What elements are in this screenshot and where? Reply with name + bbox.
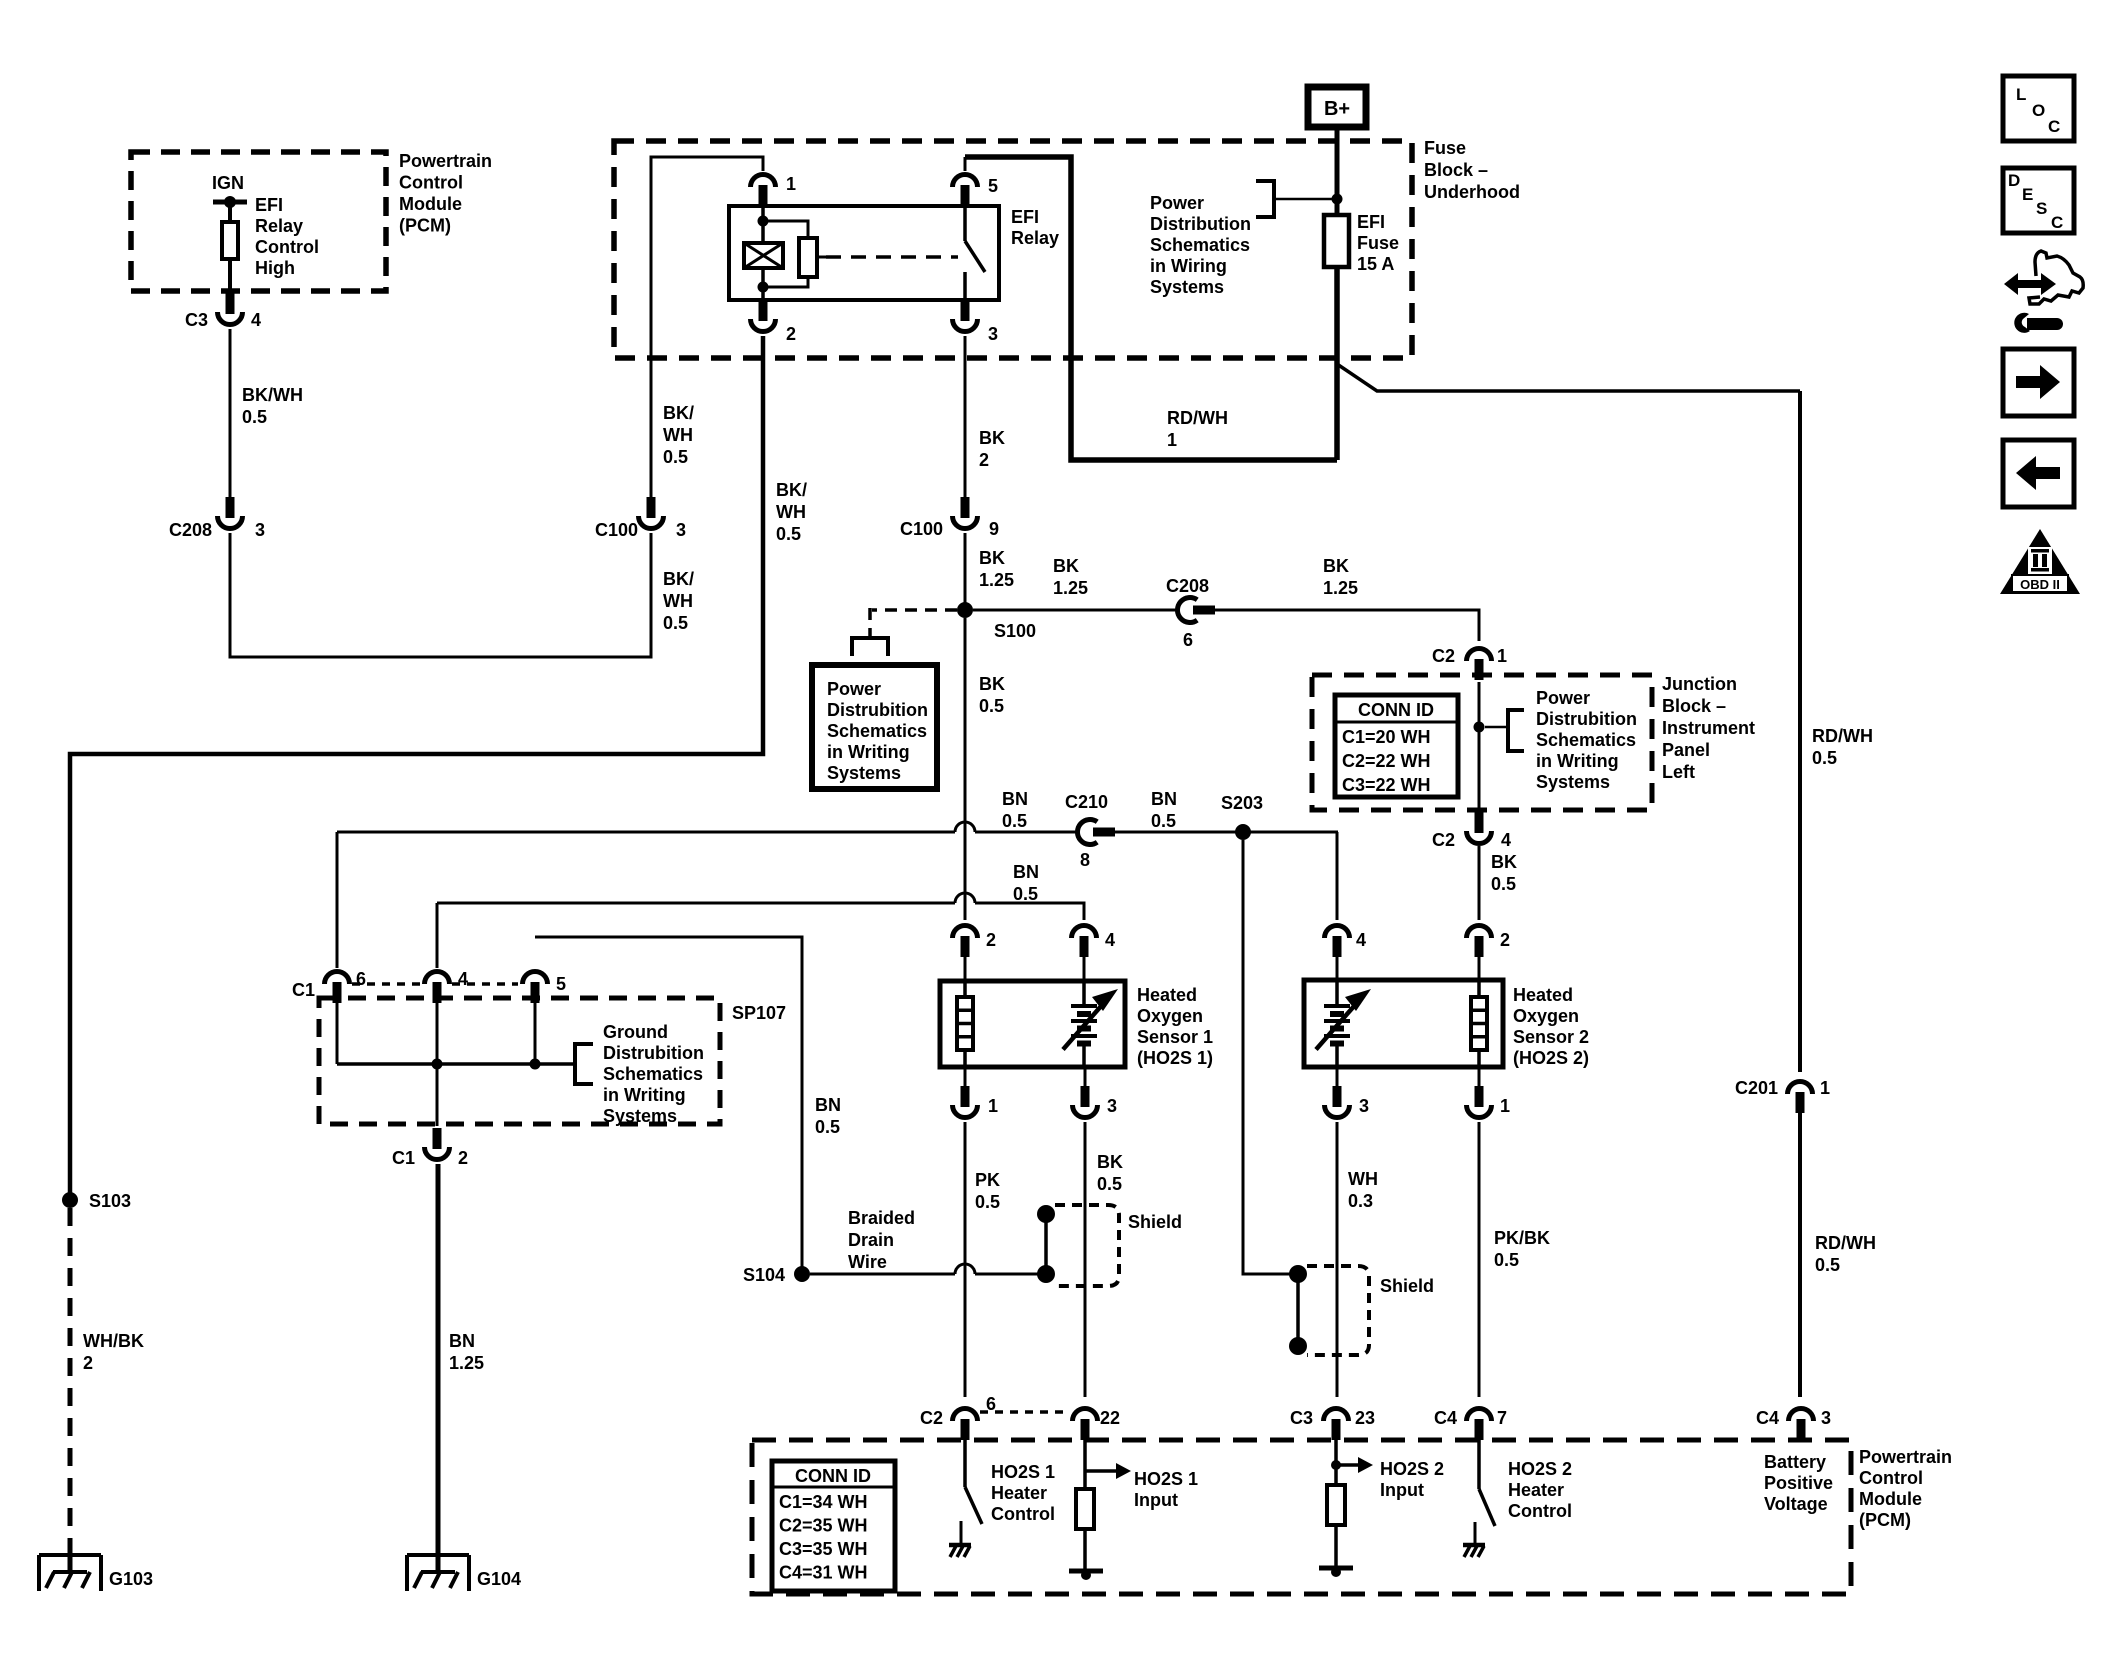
- relay switch lower contact to pin 3: [963, 272, 967, 300]
- svg-text:Control: Control: [1508, 1501, 1572, 1521]
- svg-text:1.25: 1.25: [1323, 578, 1358, 598]
- svg-text:S103: S103: [89, 1191, 131, 1211]
- svg-text:3: 3: [988, 324, 998, 344]
- wire C100-3 up to relay pin 1: [651, 157, 763, 497]
- svg-text:Wire: Wire: [848, 1252, 887, 1272]
- svg-text:RD/WH: RD/WH: [1815, 1233, 1876, 1253]
- svg-text:EFI: EFI: [1357, 212, 1385, 232]
- svg-text:C: C: [2048, 117, 2060, 136]
- svg-text:C2: C2: [920, 1408, 943, 1428]
- HO2S1 heater element: [963, 981, 967, 997]
- wire C1-5 to braided drain corner: [535, 937, 802, 1274]
- relay pin 3 connector: [961, 300, 970, 321]
- svg-text:Oxygen: Oxygen: [1513, 1006, 1579, 1026]
- svg-text:Fuse: Fuse: [1357, 233, 1399, 253]
- Power Distrubition note box (left): [812, 665, 937, 789]
- svg-text:CONN ID: CONN ID: [795, 1466, 871, 1486]
- svg-text:1: 1: [1167, 430, 1177, 450]
- connector C2 pin 4: [1475, 812, 1484, 833]
- svg-text:G103: G103: [109, 1569, 153, 1589]
- junction dot coil top: [758, 216, 769, 227]
- ground bus inside SP107: [336, 1003, 339, 1064]
- svg-text:4: 4: [458, 969, 468, 989]
- HO2S1 pin 4 connector: [1080, 936, 1089, 957]
- svg-text:(PCM): (PCM): [1859, 1510, 1911, 1530]
- svg-text:C3: C3: [1290, 1408, 1313, 1428]
- relay switch blade: [965, 241, 985, 272]
- svg-text:5: 5: [988, 176, 998, 196]
- svg-text:0.5: 0.5: [1013, 884, 1038, 904]
- Heated Oxygen Sensor 2 box: [1336, 957, 1339, 981]
- connector C3 pin 23: [1332, 1419, 1341, 1440]
- svg-text:Module: Module: [399, 194, 462, 214]
- svg-text:WH/BK: WH/BK: [83, 1331, 144, 1351]
- svg-text:HO2S 2: HO2S 2: [1508, 1459, 1572, 1479]
- wire IGN to resistor: [228, 202, 232, 222]
- HO2S2 heater control switch: [1477, 1440, 1481, 1489]
- HO2S1 input termination: [1069, 1569, 1103, 1574]
- svg-text:15 A: 15 A: [1357, 254, 1394, 274]
- CONN ID table (PCM): [772, 1461, 895, 1591]
- connector C1 pin 4: [433, 982, 442, 1003]
- svg-text:in Writing: in Writing: [1536, 751, 1619, 771]
- svg-text:Left: Left: [1662, 762, 1695, 782]
- svg-text:Ground: Ground: [603, 1022, 668, 1042]
- shield 2 dashed outline: [1307, 1266, 1369, 1355]
- svg-text:CONN ID: CONN ID: [1358, 700, 1434, 720]
- svg-text:BK: BK: [979, 674, 1005, 694]
- svg-text:PK/BK: PK/BK: [1494, 1228, 1550, 1248]
- svg-text:Power: Power: [1536, 688, 1590, 708]
- svg-text:5: 5: [556, 974, 566, 994]
- wire C208-3 down and right to C100-3: [230, 533, 651, 657]
- svg-text:Control: Control: [991, 1504, 1055, 1524]
- svg-text:Input: Input: [1380, 1480, 1424, 1500]
- svg-text:2: 2: [786, 324, 796, 344]
- SP107 dashed box: [319, 998, 720, 1124]
- HO2S1 pin 1 connector: [964, 1067, 967, 1086]
- wire C1-6 riser: [336, 832, 339, 968]
- wire pin5 stub from top run: [964, 157, 967, 171]
- svg-text:1: 1: [1500, 1096, 1510, 1116]
- svg-text:1: 1: [1820, 1078, 1830, 1098]
- icon LOC box: [2003, 76, 2074, 141]
- wire WH 0.3 to C3-23 (shielded): [1336, 1122, 1339, 1397]
- svg-text:Block –: Block –: [1662, 696, 1726, 716]
- relay coil (box with X): [744, 243, 783, 268]
- svg-text:Schematics: Schematics: [1150, 235, 1250, 255]
- svg-text:EFI: EFI: [255, 195, 283, 215]
- svg-text:Voltage: Voltage: [1764, 1494, 1828, 1514]
- svg-text:O: O: [2032, 101, 2045, 120]
- wire C1-4 riser: [436, 903, 439, 968]
- svg-text:3: 3: [676, 520, 686, 540]
- relay pin 1 connector: [759, 185, 768, 206]
- junction dot coil bottom: [758, 282, 769, 293]
- svg-text:C: C: [2051, 213, 2063, 232]
- svg-text:BK: BK: [979, 428, 1005, 448]
- ground G103: [39, 1553, 101, 1557]
- svg-text:in Writing: in Writing: [603, 1085, 686, 1105]
- HO2S1 heater control switch: [963, 1440, 967, 1487]
- svg-text:BK: BK: [1491, 852, 1517, 872]
- svg-text:4: 4: [1501, 830, 1511, 850]
- wire relay pin2 down, across, to S103: [70, 336, 763, 1200]
- svg-text:4: 4: [1356, 930, 1366, 950]
- svg-text:4: 4: [251, 310, 261, 330]
- icon vehicle with arrows and wrench: [2004, 273, 2056, 295]
- dashed connector row C1: [352, 982, 422, 986]
- shield 2 drain dots and link: [1289, 1265, 1307, 1283]
- svg-text:23: 23: [1355, 1408, 1375, 1428]
- svg-text:2: 2: [979, 450, 989, 470]
- wire resistor to C3 pin 4: [228, 259, 232, 293]
- wire coil bottom: [761, 268, 765, 300]
- svg-text:L: L: [2016, 85, 2026, 104]
- svg-text:Fuse: Fuse: [1424, 138, 1466, 158]
- svg-text:C2: C2: [1432, 830, 1455, 850]
- wire relay pin3 to C100-9: [964, 336, 967, 497]
- svg-text:C2: C2: [1432, 646, 1455, 666]
- svg-text:C2=35 WH: C2=35 WH: [779, 1516, 868, 1536]
- CONN ID table (junction block): [1335, 695, 1458, 797]
- svg-text:Powertrain: Powertrain: [399, 151, 492, 171]
- svg-text:1: 1: [786, 174, 796, 194]
- wire RD/WH 1 loop: pin5 top run: [965, 157, 1337, 460]
- wire BN row 2 (C1-4 to HO2S1 pin4): [437, 902, 955, 905]
- icon OBD II triangle: [2000, 529, 2080, 594]
- svg-text:C3=35 WH: C3=35 WH: [779, 1539, 868, 1559]
- wire PK 0.5 to C2-6: [964, 1122, 967, 1397]
- wire BN 0.5 horizontal row (to C210/S203): [337, 831, 955, 834]
- svg-text:(PCM): (PCM): [399, 216, 451, 236]
- svg-text:in Wiring: in Wiring: [1150, 256, 1227, 276]
- splice S203: [1235, 824, 1251, 840]
- svg-text:7: 7: [1497, 1408, 1507, 1428]
- svg-text:BK: BK: [1097, 1152, 1123, 1172]
- svg-text:C1: C1: [392, 1148, 415, 1168]
- svg-text:HO2S 1: HO2S 1: [991, 1462, 1055, 1482]
- resistor EFI Relay Control High (in PCM): [222, 222, 238, 259]
- svg-text:RD/WH: RD/WH: [1812, 726, 1873, 746]
- svg-text:0.5: 0.5: [776, 524, 801, 544]
- svg-text:BN: BN: [815, 1095, 841, 1115]
- svg-text:Schematics: Schematics: [827, 721, 927, 741]
- svg-text:IGN: IGN: [212, 173, 244, 193]
- svg-text:C3: C3: [185, 310, 208, 330]
- bracket to Power Distribution note: [1274, 198, 1337, 201]
- svg-text:C3=22 WH: C3=22 WH: [1342, 775, 1431, 795]
- svg-text:3: 3: [1107, 1096, 1117, 1116]
- svg-text:9: 9: [989, 519, 999, 539]
- icon prev-arrow box: [2003, 440, 2074, 507]
- wire C2-1 through junction block: [1478, 682, 1481, 812]
- svg-text:2: 2: [83, 1353, 93, 1373]
- svg-text:Module: Module: [1859, 1489, 1922, 1509]
- svg-text:WH: WH: [663, 591, 693, 611]
- svg-text:1.25: 1.25: [1053, 578, 1088, 598]
- svg-text:C4: C4: [1756, 1408, 1779, 1428]
- svg-text:C1=34 WH: C1=34 WH: [779, 1492, 868, 1512]
- svg-text:0.5: 0.5: [1002, 811, 1027, 831]
- HO2S2 input arrow and resistor: [1334, 1440, 1338, 1485]
- HO2S2 input termination: [1319, 1566, 1353, 1571]
- fuse EFI Fuse 15 A: [1324, 215, 1349, 267]
- svg-text:S: S: [2036, 199, 2047, 218]
- svg-text:0.5: 0.5: [815, 1117, 840, 1137]
- svg-text:2: 2: [1500, 930, 1510, 950]
- relay switch fixed contact from pin 5: [963, 206, 967, 241]
- svg-text:S100: S100: [994, 621, 1036, 641]
- wire BN 1.25 to G104: [436, 1164, 441, 1555]
- svg-text:1: 1: [1497, 646, 1507, 666]
- svg-text:Schematics: Schematics: [1536, 730, 1636, 750]
- svg-text:0.5: 0.5: [1151, 811, 1176, 831]
- Junction Block - Instrument Panel Left dashed box: [1312, 675, 1652, 810]
- svg-text:OBD II: OBD II: [2020, 577, 2060, 592]
- HO2S2 pin 4 connector: [1333, 936, 1342, 957]
- svg-text:Battery: Battery: [1764, 1452, 1826, 1472]
- HO2S1 sensing cell (battery with arrow): [1082, 981, 1086, 1006]
- connector C208 pin 6 (inline): [1193, 606, 1215, 615]
- connector C201 pin 1: [1796, 1092, 1805, 1113]
- svg-text:Junction: Junction: [1662, 674, 1737, 694]
- svg-text:RD/WH: RD/WH: [1167, 408, 1228, 428]
- svg-text:0.3: 0.3: [1348, 1191, 1373, 1211]
- svg-text:1: 1: [988, 1096, 998, 1116]
- EFI Relay box: [729, 206, 999, 300]
- svg-text:Relay: Relay: [1011, 228, 1059, 248]
- svg-text:HO2S 1: HO2S 1: [1134, 1469, 1198, 1489]
- svg-text:0.5: 0.5: [242, 407, 267, 427]
- svg-text:BK/WH: BK/WH: [242, 385, 303, 405]
- svg-text:High: High: [255, 258, 295, 278]
- svg-text:Sensor 2: Sensor 2: [1513, 1027, 1589, 1047]
- svg-text:C210: C210: [1065, 792, 1108, 812]
- svg-text:0.5: 0.5: [663, 447, 688, 467]
- HO2S2 pin 3 connector: [1336, 1067, 1339, 1086]
- svg-text:BK: BK: [1053, 556, 1079, 576]
- B+ box: [1308, 87, 1366, 127]
- svg-text:6: 6: [1183, 630, 1193, 650]
- svg-text:Heater: Heater: [1508, 1480, 1564, 1500]
- HO2S1 pin 2 connector: [961, 936, 970, 957]
- relay link dashed (coil to switch): [817, 256, 826, 259]
- svg-text:Heated: Heated: [1137, 985, 1197, 1005]
- wire fuse to RD/WH 1 run: [1334, 267, 1340, 460]
- HO2S1 pin 3 connector: [1084, 1067, 1087, 1086]
- svg-text:Distrubition: Distrubition: [827, 700, 928, 720]
- svg-text:8: 8: [1080, 850, 1090, 870]
- svg-text:Input: Input: [1134, 1490, 1178, 1510]
- svg-text:0.5: 0.5: [663, 613, 688, 633]
- junction dot to bracket: [1474, 722, 1485, 733]
- svg-text:4: 4: [1105, 930, 1115, 950]
- connector pin 22: [1081, 1419, 1090, 1440]
- svg-text:C208: C208: [169, 520, 212, 540]
- svg-text:0.5: 0.5: [979, 696, 1004, 716]
- svg-text:Relay: Relay: [255, 216, 303, 236]
- svg-text:Control: Control: [1859, 1468, 1923, 1488]
- wire RD/WH 0.5 C201-1 to C4-3: [1798, 1113, 1802, 1397]
- svg-text:3: 3: [255, 520, 265, 540]
- wire BK 1.25 S100 to C208-6: [973, 609, 1178, 612]
- icon next-arrow box: [2003, 349, 2074, 416]
- svg-text:Schematics: Schematics: [603, 1064, 703, 1084]
- svg-text:Instrument: Instrument: [1662, 718, 1755, 738]
- wire BK/WH 0.5 C3-4 to C208-3: [229, 329, 232, 497]
- svg-text:0.5: 0.5: [1815, 1255, 1840, 1275]
- svg-text:BK/: BK/: [663, 403, 694, 423]
- svg-text:3: 3: [1359, 1096, 1369, 1116]
- svg-text:Power: Power: [827, 679, 881, 699]
- svg-text:Block –: Block –: [1424, 160, 1488, 180]
- svg-text:(HO2S 2): (HO2S 2): [1513, 1048, 1589, 1068]
- svg-text:BN: BN: [449, 1331, 475, 1351]
- svg-text:Systems: Systems: [603, 1106, 677, 1126]
- connector C208 pin 3: [226, 497, 235, 518]
- relay coil wire: [761, 206, 765, 243]
- wire BK 0.5 C2-4 to HO2S2 pin 2: [1478, 846, 1481, 920]
- svg-text:C4=31 WH: C4=31 WH: [779, 1563, 868, 1583]
- svg-text:S203: S203: [1221, 793, 1263, 813]
- PCM (top-left) dashed box: [131, 152, 386, 291]
- svg-text:C2=22 WH: C2=22 WH: [1342, 751, 1431, 771]
- svg-text:Sensor 1: Sensor 1: [1137, 1027, 1213, 1047]
- bracket to Ground Distrubition note: [566, 1062, 575, 1066]
- junction dot B+ wire: [1332, 194, 1343, 205]
- svg-text:Systems: Systems: [827, 763, 901, 783]
- svg-text:WH: WH: [1348, 1169, 1378, 1189]
- svg-text:BN: BN: [1002, 789, 1028, 809]
- svg-text:2: 2: [986, 930, 996, 950]
- svg-text:Control: Control: [255, 237, 319, 257]
- connector C100 pin 3: [647, 497, 656, 518]
- svg-text:BN: BN: [1151, 789, 1177, 809]
- wire C100-9 to S100: [964, 533, 967, 610]
- fork bracket over note box: [868, 628, 872, 638]
- wire BN 0.5 C210 to S203: [1115, 831, 1338, 834]
- ground G104: [407, 1553, 469, 1557]
- connector C2 pin 1: [1475, 659, 1484, 680]
- wire B+ down to EFI fuse: [1335, 127, 1340, 215]
- svg-text:6: 6: [356, 969, 366, 989]
- svg-text:Shield: Shield: [1380, 1276, 1434, 1296]
- svg-text:C4: C4: [1434, 1408, 1457, 1428]
- svg-text:3: 3: [1821, 1408, 1831, 1428]
- junction dot bus at C1-5: [530, 1059, 541, 1070]
- svg-text:BK/: BK/: [663, 569, 694, 589]
- wire PK/BK 0.5 to C4-7: [1478, 1122, 1481, 1397]
- wire braided drain S104 to shield 1: [810, 1273, 955, 1276]
- svg-text:1.25: 1.25: [449, 1353, 484, 1373]
- Heated Oxygen Sensor 1 box: [964, 957, 967, 981]
- svg-text:Powertrain: Powertrain: [1859, 1447, 1952, 1467]
- svg-text:0.5: 0.5: [975, 1192, 1000, 1212]
- svg-text:Braided: Braided: [848, 1208, 915, 1228]
- connector C100 pin 9: [961, 497, 970, 518]
- svg-text:PK: PK: [975, 1170, 1000, 1190]
- HO2S2 pin 1 connector: [1478, 1067, 1481, 1086]
- svg-text:C201: C201: [1735, 1078, 1778, 1098]
- connector C1 pin 6: [333, 982, 342, 1003]
- svg-text:Oxygen: Oxygen: [1137, 1006, 1203, 1026]
- svg-text:Shield: Shield: [1128, 1212, 1182, 1232]
- svg-text:C1: C1: [292, 980, 315, 1000]
- wire S203 corner down to HO2S2 pin 4: [1336, 832, 1339, 920]
- dashed connector row C2-6/22: [980, 1410, 1070, 1414]
- svg-text:Systems: Systems: [1150, 277, 1224, 297]
- svg-text:0.5: 0.5: [1812, 748, 1837, 768]
- icon DESC box: [2003, 168, 2074, 233]
- svg-text:SP107: SP107: [732, 1003, 786, 1023]
- HO2S2 heater element: [1477, 980, 1481, 997]
- svg-text:Positive: Positive: [1764, 1473, 1833, 1493]
- svg-text:0.5: 0.5: [1491, 874, 1516, 894]
- svg-text:C1=20 WH: C1=20 WH: [1342, 727, 1431, 747]
- svg-text:Systems: Systems: [1536, 772, 1610, 792]
- dashed branch S100 to power distribution note box: [872, 608, 957, 612]
- Fuse Block - Underhood dashed box: [614, 141, 1412, 358]
- HO2S2 pin 2 connector: [1475, 936, 1484, 957]
- svg-text:0.5: 0.5: [1494, 1250, 1519, 1270]
- svg-text:E: E: [2022, 185, 2033, 204]
- svg-text:1.25: 1.25: [979, 570, 1014, 590]
- svg-text:Distrubition: Distrubition: [1536, 709, 1637, 729]
- diagonal branch to RD/WH 0.5 vertical: [1337, 364, 1800, 391]
- svg-text:EFI: EFI: [1011, 207, 1039, 227]
- svg-text:C208: C208: [1166, 576, 1209, 596]
- svg-text:Underhood: Underhood: [1424, 182, 1520, 202]
- splice S104: [794, 1266, 810, 1282]
- relay pin 2 connector: [759, 300, 768, 321]
- svg-text:Distrubition: Distrubition: [603, 1043, 704, 1063]
- connector C4 pin 7: [1475, 1419, 1484, 1440]
- svg-text:Drain: Drain: [848, 1230, 894, 1250]
- splice S103: [62, 1192, 78, 1208]
- wire BK 0.5 S100 down to HO2S1 pin 2: [964, 618, 967, 920]
- IGN terminal tick and junction dot: [213, 200, 247, 205]
- svg-text:WH: WH: [776, 502, 806, 522]
- relay internal resistor branch: [763, 221, 808, 238]
- svg-text:Heater: Heater: [991, 1483, 1047, 1503]
- svg-text:22: 22: [1100, 1408, 1120, 1428]
- svg-text:B+: B+: [1324, 98, 1350, 120]
- splice S100: [957, 602, 973, 618]
- relay pin 5 connector: [961, 185, 970, 206]
- connector C3 pin 4: [226, 293, 235, 314]
- HO2S2 sensing cell (battery with arrow): [1335, 980, 1339, 1006]
- bracket to Power Distrubition note (right): [1508, 710, 1524, 751]
- svg-text:HO2S 2: HO2S 2: [1380, 1459, 1444, 1479]
- svg-text:WH: WH: [663, 425, 693, 445]
- wire RD/WH 0.5 vertical down to C201: [1798, 391, 1802, 1072]
- svg-text:Panel: Panel: [1662, 740, 1710, 760]
- svg-text:0.5: 0.5: [1097, 1174, 1122, 1194]
- wire WH/BK 2 dashed to G103: [68, 1208, 73, 1555]
- wire BK 1.25 C208-6 to C2-1 corner: [1215, 610, 1479, 641]
- svg-text:BK/: BK/: [776, 480, 807, 500]
- wire S203 shield drain down: [1243, 840, 1290, 1274]
- svg-text:C100: C100: [900, 519, 943, 539]
- svg-text:Distribution: Distribution: [1150, 214, 1251, 234]
- HO2S1 input arrow and resistor: [1083, 1440, 1087, 1489]
- junction dot bus at C1-4: [432, 1059, 443, 1070]
- connector C210 pin 8 (inline): [1093, 828, 1115, 837]
- svg-text:BK: BK: [979, 548, 1005, 568]
- hop over BK wire at S100 column: [955, 822, 975, 832]
- connector C1 pin 2: [433, 1128, 442, 1149]
